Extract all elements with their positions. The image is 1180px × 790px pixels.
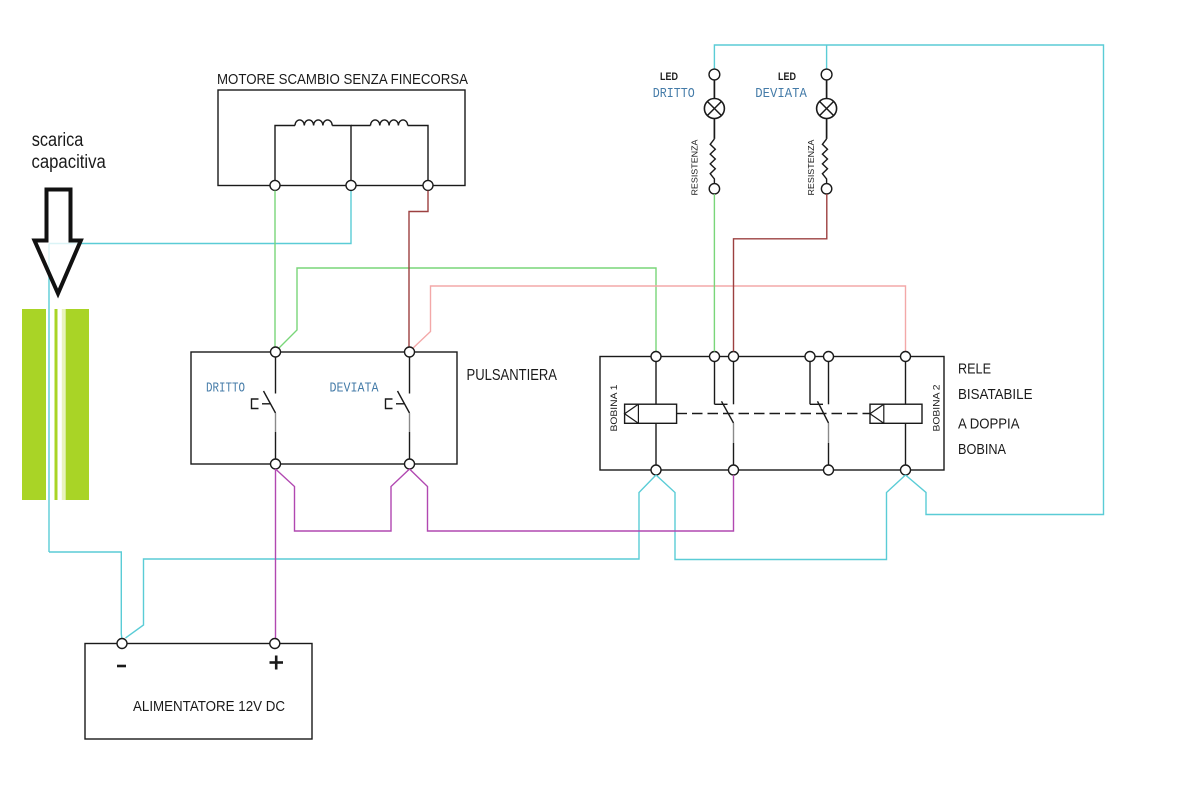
- power minus label: [117, 665, 126, 668]
- svg-text:MOTORE SCAMBIO SENZA FINECORSA: MOTORE SCAMBIO SENZA FINECORSA: [217, 71, 468, 88]
- motor winding L1: [275, 120, 351, 185]
- LED DRITTO lower terminal: [709, 184, 719, 194]
- wire cyan drop to LED DEVIATA: [826, 45, 828, 69]
- wire dark red motor to pulsantiera DEVIATA: [409, 191, 428, 348]
- wire green branch to relay coil 1: [278, 268, 657, 352]
- relay terminal bottom contact1: [729, 465, 739, 475]
- power plus label: [270, 656, 284, 670]
- wire magenta pulsantiera DEVIATA to relay contact1 bottom: [410, 469, 734, 531]
- push button DRITTO: [252, 357, 276, 459]
- power terminal minus: [117, 639, 127, 649]
- svg-text:DEVIATA: DEVIATA: [755, 86, 807, 102]
- relay terminal top contact2 common: [824, 352, 834, 362]
- pulsantiera box: [191, 352, 558, 464]
- wire cyan top loop: [714, 45, 1103, 515]
- svg-text:RESISTENZA: RESISTENZA: [689, 139, 699, 195]
- motor box MOTORE SCAMBIO SENZA FINECORSA: [217, 71, 468, 186]
- motor terminal left: [270, 180, 280, 190]
- wire cyan relay coil1 to power minus: [126, 475, 657, 638]
- wire dark red LED DEVIATA to relay contact1 common: [734, 194, 827, 352]
- wire cyan capacitor to power minus: [49, 552, 122, 640]
- svg-text:BISATABILE: BISATABILE: [958, 386, 1033, 403]
- pulsantiera terminal DEVIATA bottom: [405, 459, 415, 469]
- LED DEVIATA labels: [755, 71, 807, 102]
- svg-text:DRITTO: DRITTO: [653, 86, 695, 102]
- relay terminal top contact1 fixed: [710, 352, 720, 362]
- LED DRITTO terminal: [709, 69, 720, 80]
- relay box: [600, 357, 944, 471]
- power supply box ALIMENTATORE 12V DC: [85, 644, 312, 740]
- svg-text:BOBINA 1: BOBINA 1: [609, 384, 619, 431]
- relay terminal top contact2 fixed: [805, 352, 815, 362]
- svg-text:ALIMENTATORE 12V DC: ALIMENTATORE 12V DC: [133, 698, 285, 715]
- resistor RESISTENZA left: [710, 119, 715, 184]
- relay contact 2: [810, 362, 829, 466]
- push button DEVIATA: [386, 357, 410, 459]
- wire cyan relay coil terminals join: [656, 475, 906, 560]
- svg-text:LED: LED: [778, 71, 796, 83]
- LED DRITTO labels: [653, 71, 695, 102]
- relay coil BOBINA 2: [870, 362, 922, 466]
- resistor RESISTENZA right: [822, 119, 827, 184]
- relay terminal bottom coil1: [651, 465, 661, 475]
- svg-text:LED: LED: [660, 71, 678, 83]
- svg-text:DRITTO: DRITTO: [206, 381, 245, 397]
- svg-text:DEVIATA: DEVIATA: [330, 381, 379, 397]
- svg-text:BOBINA: BOBINA: [958, 441, 1006, 458]
- relay coil BOBINA 1: [625, 362, 677, 466]
- LED DRITTO lamp: [704, 80, 724, 119]
- svg-text:RELE: RELE: [958, 361, 991, 378]
- relay terminal top coil1: [651, 352, 661, 362]
- relay label RELE BISATABILE A DOPPIA BOBINA: [958, 361, 1033, 458]
- relay mechanical linkage (dashed): [677, 413, 870, 415]
- motor terminal right: [423, 180, 433, 190]
- LED DEVIATA terminal: [821, 69, 832, 80]
- relay contact 1: [715, 362, 734, 466]
- wire magenta pulsantiera DRITTO to DEVIATA bottom: [276, 469, 410, 531]
- svg-text:PULSANTIERA: PULSANTIERA: [467, 367, 558, 384]
- relay terminal bottom contact2: [824, 465, 834, 475]
- svg-text:BOBINA 2: BOBINA 2: [932, 384, 942, 431]
- pulsantiera terminal DRITTO bottom: [271, 459, 281, 469]
- motor terminal center: [346, 180, 356, 190]
- svg-text:A DOPPIA: A DOPPIA: [958, 416, 1020, 433]
- LED DEVIATA lower terminal: [821, 184, 831, 194]
- wire cyan capacitor vertical: [48, 244, 50, 553]
- svg-text:capacitiva: capacitiva: [32, 152, 107, 173]
- motor winding L2: [351, 120, 428, 185]
- svg-text:scarica: scarica: [32, 130, 84, 151]
- svg-text:RESISTENZA: RESISTENZA: [806, 139, 816, 195]
- relay terminal top coil2: [901, 352, 911, 362]
- wire green LED DRITTO to relay contact1 fixed: [713, 194, 715, 352]
- pulsantiera terminal DRITTO top: [271, 347, 281, 357]
- capacitor bank (green block): [22, 309, 89, 500]
- LED DEVIATA lamp: [817, 80, 837, 119]
- wire green motor to pulsantiera DRITTO: [274, 191, 276, 348]
- relay terminal bottom coil2: [901, 465, 911, 475]
- pulsantiera terminal DEVIATA top: [405, 347, 415, 357]
- wire magenta pulsantiera DRITTO to power plus: [275, 469, 277, 639]
- arrow (scarica capacitiva pointer): [35, 190, 81, 294]
- label scarica capacitiva: [32, 130, 107, 173]
- wire cyan capacitor to motor center terminal: [49, 191, 351, 244]
- relay terminal top contact1 common: [729, 352, 739, 362]
- power terminal plus: [270, 639, 280, 649]
- wire pink pulsantiera DEVIATA to relay coil 2: [412, 286, 906, 352]
